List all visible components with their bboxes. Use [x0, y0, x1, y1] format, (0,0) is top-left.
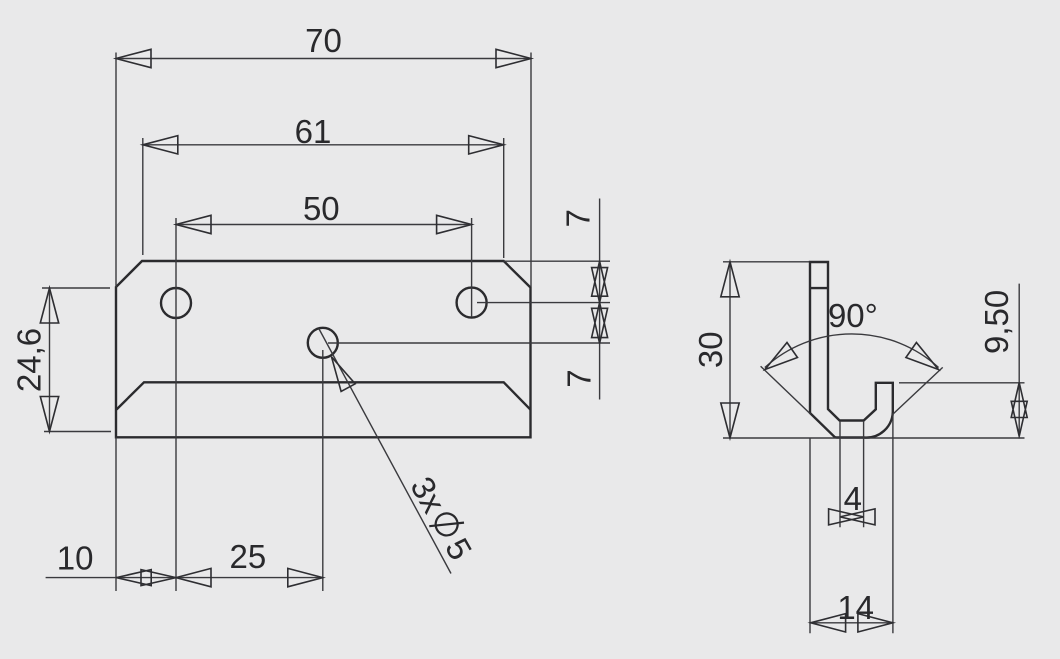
ext line left hole centerline: [175, 218, 177, 591]
arrow angle right: [906, 343, 939, 370]
ext line top edge to 7 dim: [504, 260, 610, 262]
arrows 30: [721, 262, 739, 438]
leader right hole to 7 dim: [477, 302, 610, 304]
bowtie 7 lower: [592, 303, 608, 344]
ext line middle hole centerline: [322, 350, 324, 591]
svg-text:25: 25: [230, 538, 267, 575]
bowtie 4: [829, 509, 875, 525]
dim line 14: [811, 622, 893, 624]
angle leg right: [892, 367, 943, 415]
dim line 50: [176, 224, 472, 226]
ext line 30 top: [723, 261, 810, 263]
svg-text:24,6: 24,6: [10, 328, 47, 392]
leader middle hole to 7 dim: [328, 342, 610, 344]
svg-text:10: 10: [57, 540, 94, 577]
text 3x dia 5: [403, 470, 479, 566]
dim line 24,6: [49, 288, 51, 432]
ext line x142.8: [142, 138, 144, 255]
svg-text:90°: 90°: [828, 297, 878, 334]
svg-text:14: 14: [837, 589, 874, 626]
arrows 25: [176, 568, 323, 586]
dim line 7 dims: [599, 199, 601, 400]
ext line 24,6 bottom: [44, 431, 111, 433]
bowtie 10: [116, 570, 176, 586]
ext line 24,6 top: [42, 287, 110, 289]
bowtie 9,50: [1011, 383, 1027, 437]
arrows 50: [176, 215, 472, 233]
ext lines 4 dim: [840, 421, 864, 527]
hole right: [457, 288, 487, 318]
svg-text:4: 4: [844, 480, 862, 517]
ext line left x116 bottom: [115, 437, 117, 591]
svg-text:30: 30: [692, 331, 729, 368]
svg-text:61: 61: [295, 113, 332, 150]
svg-text:7: 7: [560, 209, 597, 227]
svg-text:70: 70: [305, 22, 342, 59]
hole left: [161, 288, 191, 318]
svg-text:7: 7: [561, 369, 598, 387]
ext line left x116 top: [115, 53, 117, 288]
ext lines 14 dim: [810, 413, 893, 633]
arrow angle left: [765, 343, 798, 370]
ext line 9,50 top: [899, 382, 1025, 384]
dim line 9,50: [1018, 284, 1020, 439]
ext line bottom of hook y438: [723, 437, 1025, 439]
angle leg left: [761, 366, 811, 414]
svg-text:50: 50: [303, 190, 340, 227]
arrows 61: [143, 136, 504, 154]
hole middle: [308, 328, 338, 358]
dim line 61: [143, 144, 504, 146]
dim line 70: [116, 58, 531, 60]
hook profile outline (side view): [810, 262, 893, 438]
svg-text:9,50: 9,50: [978, 290, 1015, 354]
ext line right hole centerline: [471, 218, 473, 317]
arrows 14: [811, 614, 893, 632]
arrow leader hole: [332, 357, 356, 392]
dim line 30: [729, 262, 731, 438]
bowtie 7 upper: [592, 261, 608, 302]
plate fold line: [117, 382, 531, 409]
leader 3x dia 5: [319, 329, 451, 574]
arrows 24,6: [40, 288, 58, 432]
ext line x531: [530, 53, 532, 288]
ext line x503.7: [503, 138, 505, 258]
dim line 10 and 25: [46, 577, 323, 579]
hook top hem line: [810, 287, 828, 289]
arrows 70: [116, 49, 531, 67]
plate outline (front view): [116, 261, 531, 437]
angle arc 90: [765, 334, 939, 368]
